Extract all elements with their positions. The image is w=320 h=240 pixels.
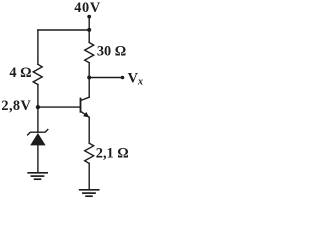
node: Vx terminal dot	[121, 76, 125, 80]
ground (left)	[28, 173, 47, 179]
junction: Vx node on right rail	[87, 76, 91, 80]
wire: base lead from 2,8V node to transistor base	[38, 106, 81, 108]
svg-text:x: x	[137, 76, 143, 87]
junction: top rail to left branch	[87, 28, 91, 32]
wire: right rail from 30 ohm resistor to collector	[88, 63, 90, 97]
transistor Q1: emitter arrowhead	[83, 112, 89, 118]
svg-text:4 Ω: 4 Ω	[9, 65, 31, 81]
svg-text:2,1 Ω: 2,1 Ω	[96, 145, 129, 161]
wire: right rail from 40V terminal down to 30ohm resistor	[88, 17, 90, 43]
transistor Q1: base bar	[80, 99, 82, 112]
svg-text:40V: 40V	[74, 0, 101, 16]
resistor 4ohm	[33, 64, 42, 84]
svg-text:V: V	[128, 70, 139, 86]
svg-text:2,8V: 2,8V	[1, 98, 31, 114]
wire: from 2,8V node down to zener cathode	[37, 107, 39, 132]
node: 2,8V junction dot	[36, 105, 40, 109]
node: 40V supply terminal dot	[87, 15, 91, 19]
wire: left rail down to 4 ohm resistor	[37, 30, 39, 64]
wire: emitter down to 2,1 ohm resistor	[88, 117, 90, 143]
zener diode cathode bar with bent ends	[28, 130, 48, 135]
wire: 2,1 ohm resistor to right ground	[88, 163, 90, 189]
resistor 2,1ohm	[85, 143, 94, 163]
wire: top horizontal from junction to left corner	[38, 29, 89, 31]
zener diode anode triangle	[30, 133, 45, 145]
svg-text:30 Ω: 30 Ω	[97, 44, 126, 60]
wire: left rail from 4 ohm resistor to 2,8V node	[37, 85, 39, 108]
wire: Vx stub to the right	[89, 77, 122, 79]
ground (right)	[80, 190, 99, 196]
transistor Q1: emitter lead	[81, 111, 90, 117]
transistor Q1 (NPN): collector lead	[81, 97, 90, 100]
resistor 30ohm	[85, 43, 94, 63]
wire: zener anode to left ground	[37, 145, 39, 172]
